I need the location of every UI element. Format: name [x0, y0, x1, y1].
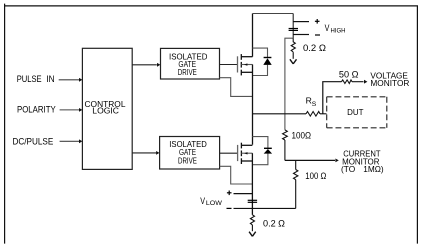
- wire Q1 drain up: [252, 14, 254, 57]
- resistor R5 100 ohm (lower): [294, 160, 298, 208]
- wire current monitor: [285, 159, 335, 161]
- svg-text:100Ω: 100Ω: [292, 131, 312, 141]
- R5 value label: [305, 171, 326, 181]
- isolated gate drive box U2 (top): [161, 48, 220, 79]
- ground arrow (bottom): [249, 232, 256, 237]
- svg-text:MONITOR: MONITOR: [370, 79, 409, 88]
- svg-text:V: V: [200, 196, 205, 206]
- arrowhead to ISO2: [156, 151, 159, 155]
- node V_HIGH label: [325, 23, 346, 34]
- transistor Q2 (bottom MOSFET): [238, 143, 253, 164]
- control logic label: [85, 99, 126, 116]
- arrowhead DC/PULSE: [79, 139, 82, 143]
- svg-text:PULSE: PULSE: [17, 74, 42, 84]
- svg-text:1MΩ): 1MΩ): [363, 165, 384, 174]
- arrowhead POLARITY: [79, 108, 82, 112]
- RS label: [306, 96, 317, 108]
- svg-text:100 Ω: 100 Ω: [305, 171, 326, 181]
- wire DC/PULSE input: [60, 140, 79, 142]
- wire control to ISO1: [132, 64, 157, 66]
- plus sign V_LOW: [227, 191, 232, 196]
- wire Q2 source rail down: [251, 153, 253, 215]
- transistor Q1 (top MOSFET): [238, 54, 253, 75]
- arrowhead PULSE IN: [79, 78, 82, 82]
- resistor R4 100 ohm (upper): [283, 130, 288, 161]
- svg-text:LOW: LOW: [206, 200, 223, 207]
- svg-text:DRIVE: DRIVE: [178, 156, 197, 165]
- U3 label: [169, 140, 207, 165]
- wire ISO1 gate output: [220, 64, 238, 66]
- ground arrow (top): [290, 59, 297, 64]
- svg-text:50 Ω: 50 Ω: [339, 69, 359, 79]
- wire main rail Q1 source to Q2 drain: [252, 65, 254, 145]
- svg-text:(TO: (TO: [341, 165, 355, 174]
- wire V_LOW minus rail: [234, 207, 296, 209]
- wire top rail to battery: [253, 13, 294, 15]
- node DC/PULSE label: [13, 136, 54, 146]
- DUT label: [347, 107, 363, 117]
- svg-text:V: V: [325, 23, 330, 33]
- svg-text:0.2 Ω: 0.2 Ω: [263, 218, 285, 228]
- wire minus lead V_HIGH: [293, 34, 309, 36]
- battery V_HIGH: [289, 14, 298, 39]
- isolated gate drive box U3 (bottom): [160, 137, 220, 170]
- node CURRENT MONITOR label: [341, 150, 384, 175]
- D2 cathode bar: [264, 147, 272, 149]
- wire voltage monitor tap: [323, 82, 342, 114]
- node V_LOW label: [200, 196, 223, 207]
- svg-text:POLARITY: POLARITY: [17, 104, 56, 114]
- Q2 body arrow: [244, 152, 247, 154]
- resistor R1 0.2 ohm (top): [291, 38, 295, 59]
- svg-text:0.2 Ω: 0.2 Ω: [303, 43, 326, 53]
- svg-text:HIGH: HIGH: [331, 27, 346, 34]
- arrowhead to ISO1: [157, 63, 160, 67]
- resistor R3 0.2 ohm (bottom): [250, 215, 254, 231]
- D1 cathode bar: [264, 57, 272, 59]
- U2 label: [169, 52, 207, 76]
- battery V_LOW: [248, 200, 257, 202]
- R4 value label: [292, 131, 312, 141]
- arrowhead current monitor: [335, 159, 338, 163]
- minus sign V_HIGH: [315, 34, 320, 36]
- svg-text:LOGIC: LOGIC: [92, 106, 119, 116]
- node POLARITY label: [17, 104, 56, 114]
- D2 triangle: [264, 149, 272, 154]
- wire ISO2 source reference: [220, 166, 253, 184]
- Q1 body arrow: [244, 63, 247, 65]
- svg-text:DUT: DUT: [347, 107, 363, 117]
- wire V_HIGH minus corner: [285, 38, 293, 130]
- node VOLTAGE MONITOR label: [370, 71, 409, 88]
- wire control to ISO2: [132, 152, 156, 154]
- resistor RS: [306, 112, 327, 117]
- plus sign V_HIGH: [315, 19, 320, 24]
- svg-text:S: S: [312, 101, 317, 108]
- resistor R2 50 ohm: [342, 80, 364, 84]
- DUT dashed box: [327, 97, 387, 128]
- wire ISO2 gate output: [220, 152, 238, 154]
- wire POLARITY input: [60, 109, 79, 111]
- svg-text:DC/PULSE: DC/PULSE: [13, 136, 54, 146]
- R2 value label: [339, 69, 359, 79]
- wire ISO1 source reference: [220, 78, 253, 97]
- svg-text:DRIVE: DRIVE: [178, 68, 197, 77]
- wire plus lead V_HIGH: [293, 21, 309, 23]
- D1 triangle: [263, 58, 271, 65]
- wire output node horizontal: [253, 113, 307, 115]
- minus sign V_LOW: [227, 207, 232, 209]
- wire PULSE IN input: [59, 79, 79, 81]
- svg-text:IN: IN: [46, 74, 54, 84]
- arrowhead voltage monitor: [364, 80, 367, 84]
- wire plus lead V_LOW: [234, 193, 253, 195]
- node PULSE IN label: [17, 74, 55, 84]
- diode D2 (Q2 body diode): [252, 137, 268, 165]
- diode D1 (Q1 body diode): [253, 48, 268, 75]
- R3 value label: [263, 218, 285, 228]
- R1 value label: [303, 43, 326, 53]
- control logic box U1: [82, 48, 132, 169]
